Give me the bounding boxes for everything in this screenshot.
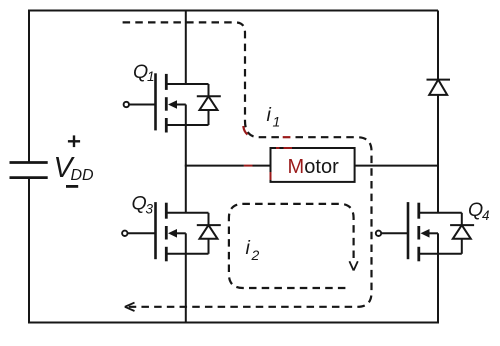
svg-text:Q: Q: [133, 61, 148, 83]
svg-text:Q: Q: [468, 199, 483, 221]
svg-text:1: 1: [147, 69, 155, 84]
source VDD plates: [10, 163, 48, 178]
wire: mid branch drain of Q1 to top bus: [185, 11, 187, 85]
diode D1 body diode of Q1: [197, 84, 221, 125]
current path i1 dashed: [123, 22, 372, 306]
arrow head of current path i1: [125, 303, 135, 311]
svg-text:3: 3: [146, 202, 154, 217]
svg-text:M: M: [288, 156, 305, 178]
svg-text:Q: Q: [132, 193, 147, 215]
label i2: [246, 237, 260, 263]
wire: left bus lower: [28, 178, 30, 324]
wire: Q3 source to bottom bus: [185, 254, 187, 323]
svg-text:otor: otor: [304, 156, 339, 178]
label Q3: [132, 193, 154, 217]
svg-text:1: 1: [273, 114, 281, 130]
wire: Q1 source to motor node A: [185, 125, 187, 167]
wire: motor right terminal to node B: [355, 165, 438, 167]
diode D4 body diode of Q4: [450, 213, 474, 254]
current path i2 dashed loop: [229, 204, 354, 288]
wire: left bus upper: [28, 10, 30, 163]
label i1: [267, 104, 281, 130]
label VDD: [54, 152, 95, 184]
svg-text:2: 2: [251, 247, 260, 263]
diode D2 top right leg: [427, 11, 451, 167]
label Q1: [133, 61, 155, 84]
svg-text:DD: DD: [71, 167, 95, 184]
label Q4: [468, 199, 490, 223]
diode D3 body diode of Q3: [197, 213, 221, 254]
transistor Q1: [124, 73, 209, 132]
label VDD minus sign: [66, 185, 78, 188]
transistor Q4: [376, 202, 462, 261]
wire: Q4 source to bottom bus: [437, 254, 439, 324]
wire: node B to Q4 drain: [437, 165, 439, 213]
wire: node A to Q3 drain: [185, 165, 187, 213]
wire: node A to motor left terminal: [186, 165, 271, 167]
arrow head of current path i2: [349, 261, 357, 270]
svg-text:i: i: [246, 237, 251, 259]
svg-text:i: i: [267, 104, 272, 126]
label VDD plus sign: [68, 135, 80, 147]
wire: bottom bus: [28, 322, 439, 324]
svg-text:4: 4: [482, 208, 490, 223]
transistor Q3: [122, 202, 208, 261]
wire: top bus: [28, 10, 438, 12]
motor M: [271, 148, 355, 182]
